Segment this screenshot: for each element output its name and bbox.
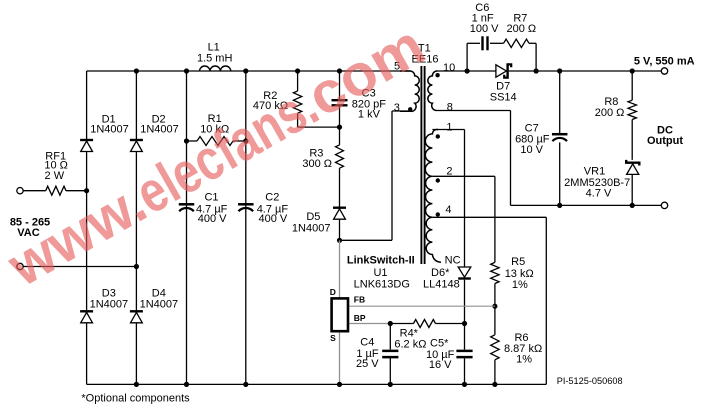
svg-text:S: S [330, 333, 336, 343]
svg-text:2: 2 [446, 166, 452, 178]
svg-text:C2: C2 [265, 192, 279, 204]
svg-text:16 V: 16 V [429, 359, 452, 371]
svg-text:1%: 1% [516, 353, 532, 365]
svg-text:2 W: 2 W [45, 170, 65, 182]
svg-text:U1: U1 [373, 267, 387, 279]
svg-text:D5: D5 [306, 211, 320, 223]
svg-text:1: 1 [446, 122, 452, 134]
svg-text:LinkSwitch-II: LinkSwitch-II [347, 254, 415, 266]
svg-text:Output: Output [647, 135, 683, 147]
svg-text:200 Ω: 200 Ω [595, 107, 625, 119]
svg-text:8: 8 [447, 101, 453, 113]
svg-text:300 Ω: 300 Ω [302, 158, 332, 170]
svg-text:5 V, 550 mA: 5 V, 550 mA [634, 55, 695, 67]
svg-text:1N4007: 1N4007 [140, 298, 179, 310]
svg-text:C7: C7 [525, 122, 539, 134]
svg-text:400 V: 400 V [198, 213, 227, 225]
svg-text:25 V: 25 V [356, 358, 379, 370]
svg-text:LNK613DG: LNK613DG [354, 279, 410, 291]
svg-text:4.7 V: 4.7 V [586, 187, 612, 199]
svg-text:200 Ω: 200 Ω [506, 23, 536, 35]
svg-text:100 V: 100 V [470, 23, 499, 35]
svg-text:C5*: C5* [430, 338, 449, 350]
svg-text:1N4007: 1N4007 [90, 298, 129, 310]
svg-text:10 V: 10 V [520, 144, 543, 156]
svg-text:NC: NC [445, 254, 461, 266]
svg-text:1N4007: 1N4007 [292, 223, 331, 235]
svg-text:400 V: 400 V [259, 213, 288, 225]
svg-text:PI-5125-050608: PI-5125-050608 [557, 376, 623, 386]
svg-text:C4: C4 [360, 337, 374, 349]
svg-text:LL4148: LL4148 [423, 279, 460, 291]
svg-text:R5: R5 [511, 256, 525, 268]
svg-text:BP: BP [354, 313, 366, 323]
svg-text:D6*: D6* [431, 267, 450, 279]
svg-text:*Optional components: *Optional components [81, 392, 190, 404]
svg-text:1%: 1% [512, 279, 528, 291]
svg-text:3: 3 [394, 102, 400, 114]
svg-text:FB: FB [354, 294, 365, 304]
svg-text:VR1: VR1 [584, 166, 605, 178]
svg-text:10: 10 [443, 62, 455, 74]
svg-text:1N4007: 1N4007 [140, 123, 179, 135]
svg-text:1N4007: 1N4007 [90, 123, 129, 135]
svg-text:6.2 kΩ: 6.2 kΩ [394, 339, 426, 351]
svg-text:SS14: SS14 [490, 92, 517, 104]
svg-text:D: D [330, 287, 336, 297]
svg-text:1.5 mH: 1.5 mH [197, 52, 233, 64]
svg-text:R4*: R4* [400, 327, 419, 339]
svg-text:4: 4 [445, 204, 451, 216]
